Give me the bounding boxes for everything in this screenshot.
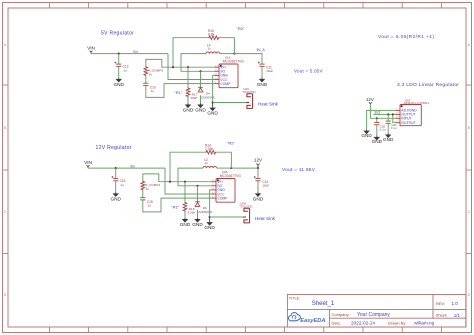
wire output rail (234, 54, 262, 64)
resistor R16 6.8k (feedback R2) (173, 38, 208, 67)
pin 2 SO of U1B (212, 185, 217, 187)
wire output rail 3V3 (374, 113, 396, 115)
title block row divider 1 (287, 308, 465, 310)
wire SO pin to inductor (181, 54, 215, 72)
svg-text:Sheet_1: Sheet_1 (312, 301, 335, 307)
svg-text:VIN: VIN (84, 160, 92, 165)
svg-text:1u: 1u (120, 183, 124, 187)
svg-text:"R2": "R2" (237, 26, 246, 31)
svg-text:1u: 1u (151, 89, 155, 93)
svg-text:GND: GND (192, 222, 203, 227)
capacitor C11 10uF (output) (259, 63, 264, 65)
capacitor C20 0.1u (LDO input) (376, 117, 378, 119)
wire to input cap C15 (115, 168, 117, 178)
svg-text:TO*10.5*21: TO*10.5*21 (239, 204, 253, 208)
svg-text:Vout = 5.05V: Vout = 5.05V (294, 69, 323, 74)
pin 4 VCC of U1B (212, 193, 217, 195)
wire 12V port to INPUT pin (370, 104, 395, 119)
inductor L4 1u (206, 52, 220, 54)
wire to input cap C13 (118, 54, 120, 64)
ground under C14 (257, 192, 259, 193)
wire GND pin to ground and heat sink (210, 190, 212, 217)
svg-text:Vout = 5.05(R2/R1 +1): Vout = 5.05(R2/R1 +1) (378, 34, 434, 39)
svg-text:Your Company: Your Company (357, 312, 390, 318)
border zone letters left (4, 43, 7, 297)
svg-text:COMP: COMP (220, 82, 231, 86)
pin 1 COMP of U1B (212, 197, 217, 199)
border zone letters right (468, 43, 471, 297)
svg-text:OUTPUT: OUTPUT (401, 121, 416, 125)
svg-text:EasyEDA: EasyEDA (300, 318, 325, 324)
svg-text:"R1": "R1" (171, 205, 180, 210)
svg-text:1u: 1u (205, 161, 209, 165)
wire VIN to VCC pin (165, 168, 212, 194)
svg-text:GND: GND (383, 137, 394, 142)
svg-text:1u: 1u (208, 47, 212, 51)
svg-text:1k: 1k (146, 187, 150, 191)
capacitor C19 1u (compensation) (140, 197, 145, 199)
pin 2 OUTPUT of U16 (396, 113, 401, 115)
ground under C11 (261, 78, 263, 79)
svg-text:10uF: 10uF (262, 184, 269, 188)
svg-text:GND: GND (361, 133, 372, 138)
svg-text:1.0: 1.0 (452, 301, 459, 306)
wire feedback node H1 to VFI pin (146, 59, 215, 67)
title block outline (287, 295, 465, 328)
pin 2 SO of U1A (215, 70, 220, 72)
junction node output (230, 167, 232, 169)
ground at ADJ pin (366, 129, 368, 130)
svg-text:Company:: Company: (332, 312, 350, 317)
svg-text:VIN: VIN (87, 46, 95, 51)
junction node C input tap (5V) (118, 53, 120, 55)
wire feedback node H1 to VFI pin (143, 174, 212, 182)
svg-text:3V3: 3V3 (374, 110, 380, 114)
pin 3 GND of U1A (215, 74, 220, 76)
junction node C input tap (12V) (115, 167, 117, 169)
wire VIN rail (88, 167, 165, 169)
svg-text:DNP: DNP (191, 96, 198, 100)
pin 4 VCC of U1A (215, 79, 220, 81)
svg-text:1u: 1u (148, 203, 152, 207)
svg-text:GND: GND (257, 82, 268, 87)
pin 3 INPUT of U16 (396, 117, 401, 119)
title block row divider 2 (329, 317, 465, 319)
svg-text:10uF: 10uF (266, 69, 273, 73)
svg-text:0.1u: 0.1u (391, 126, 397, 130)
resistor R_COMP3 1k (compensation) (144, 66, 148, 77)
ground under C20 (376, 136, 378, 137)
svg-text:GND: GND (204, 225, 215, 230)
regulator IC U16 AZ1117H-3.3TRG1 (400, 105, 421, 126)
capacitor C14 10uF (output) (255, 178, 260, 180)
border ruler tick marks top (49, 3, 441, 9)
svg-text:GND: GND (195, 107, 206, 112)
border ruler tick marks bottom (49, 327, 441, 333)
capacitor C21 0.1u (LDO output) (387, 113, 389, 115)
diode D4 SS3060AS (catch diode) (199, 70, 201, 72)
svg-text:GND: GND (180, 222, 191, 227)
svg-text:12V: 12V (366, 97, 374, 102)
svg-text:AZ1117H-3.3TRG1: AZ1117H-3.3TRG1 (404, 101, 430, 105)
svg-text:3.3 LDO Linear Regulator: 3.3 LDO Linear Regulator (397, 82, 459, 88)
wire output rail (231, 167, 258, 169)
wire SO pin to inductor (178, 168, 212, 186)
EasyEDA logo cloud (289, 313, 301, 321)
svg-text:1/1: 1/1 (454, 313, 461, 318)
ground under R17 (187, 103, 189, 104)
capacitor C10 1u (compensation) (143, 82, 148, 84)
svg-text:D6: D6 (203, 206, 207, 210)
svg-text:GND: GND (183, 107, 194, 112)
svg-text:6.8k: 6.8k (208, 33, 215, 37)
title block REV column divider (432, 295, 434, 319)
pin 5 VFI of U1A (215, 66, 220, 68)
svg-text:12V: 12V (254, 158, 263, 163)
op-amp/regulator IC U1B MC33167TVG (216, 179, 235, 203)
resistor R17 DNP (feedback R1) (187, 67, 189, 87)
capacitor C13 1u (input) (116, 63, 121, 65)
resistor R_COMP4 1k (compensation) (141, 180, 145, 191)
svg-text:Sheet:: Sheet: (436, 313, 447, 318)
svg-text:B: B (4, 126, 6, 130)
pin 1 COMP of U1A (215, 83, 220, 85)
ground under C13 (118, 78, 120, 79)
pin 1 ADJ/GND of U16 (396, 109, 401, 111)
svg-text:GND: GND (113, 82, 124, 87)
svg-text:5V Regulator: 5V Regulator (101, 31, 134, 37)
inductor L3 1u (203, 166, 217, 168)
svg-text:Heat Sink: Heat Sink (258, 102, 279, 107)
svg-text:REV:: REV: (436, 301, 445, 306)
wire ADJ/GND pin to ground (367, 110, 396, 129)
ground at IC GND pin (209, 221, 211, 222)
wire inductor to output node (217, 167, 232, 169)
ground under C21 (387, 133, 389, 134)
title block logo cell divider (328, 309, 330, 327)
svg-text:INPUT: INPUT (401, 117, 412, 121)
pin 5 VFI of U1B (212, 181, 217, 183)
svg-text:B: B (468, 126, 470, 130)
svg-text:5V_A: 5V_A (257, 48, 266, 52)
svg-text:GND: GND (253, 196, 264, 201)
svg-text:1k: 1k (149, 73, 153, 77)
svg-text:GND: GND (372, 139, 383, 144)
capacitor C15 1u (input) (113, 178, 118, 180)
junction node R2 tap (172, 66, 174, 68)
ground under C15 (115, 192, 117, 193)
ground under D6 (197, 218, 199, 219)
svg-text:GND: GND (110, 196, 121, 201)
ground under D4 (200, 103, 202, 104)
svg-text:COMP: COMP (217, 196, 228, 200)
junction node output cap tap (12V) (257, 167, 259, 169)
border ruler tick marks right (466, 85, 472, 254)
svg-text:Vin: Vin (133, 50, 138, 54)
svg-text:william.ng: william.ng (414, 321, 435, 326)
border ruler tick marks left (3, 85, 9, 254)
svg-text:5.36k: 5.36k (188, 211, 196, 215)
resistor R15 5.36k (feedback R1) (184, 182, 186, 202)
svg-text:Heat Sink: Heat Sink (255, 216, 276, 221)
wire inductor to output node (220, 53, 235, 55)
svg-text:7.32k: 7.32k (205, 147, 213, 151)
svg-text:2022-02-14: 2022-02-14 (351, 321, 375, 326)
junction node output (233, 53, 235, 55)
wire compensation RC to COMP pin (143, 198, 212, 212)
svg-text:TITLE:: TITLE: (289, 297, 300, 301)
svg-text:1u: 1u (123, 68, 127, 72)
op-amp/regulator IC U1A MC33167TVG (219, 64, 238, 88)
svg-text:"R2": "R2" (227, 141, 236, 146)
junction node output tie (392, 113, 394, 115)
svg-text:"R1": "R1" (174, 90, 183, 95)
svg-text:MC33167TVG: MC33167TVG (220, 174, 242, 178)
svg-text:MC33167TVG: MC33167TVG (223, 60, 245, 64)
junction node R1 tap (184, 181, 186, 183)
svg-text:0.1u: 0.1u (380, 127, 386, 131)
resistor R14 7.32k (feedback R2) (170, 152, 205, 182)
junction node R2 tap (169, 181, 171, 183)
svg-text:Date:: Date: (332, 320, 341, 325)
svg-text:D4: D4 (206, 91, 210, 95)
svg-text:Drawn By:: Drawn By: (388, 320, 406, 325)
junction node R1 tap (187, 66, 189, 68)
diode D6 SS3060AS (catch diode) (196, 185, 198, 187)
wire compensation RC to COMP pin (146, 84, 215, 98)
pin 4 OUTPUT of U16 (396, 122, 401, 124)
ground under R15 (184, 218, 186, 219)
svg-text:Vin: Vin (130, 164, 135, 168)
ground at IC GND pin (212, 106, 214, 107)
svg-text:GND: GND (207, 111, 218, 116)
svg-text:TO*10.5*21: TO*10.5*21 (242, 90, 256, 94)
wire VIN to VCC pin (168, 54, 215, 80)
svg-text:12V Regulator: 12V Regulator (96, 145, 132, 151)
svg-text:Vout = 11.95V: Vout = 11.95V (282, 167, 316, 172)
wire OUTPUT pin tie (393, 114, 396, 122)
pin 3 GND of U1B (212, 189, 217, 191)
wire GND pin to ground and heat sink (213, 75, 215, 102)
wire VIN rail (91, 53, 168, 55)
